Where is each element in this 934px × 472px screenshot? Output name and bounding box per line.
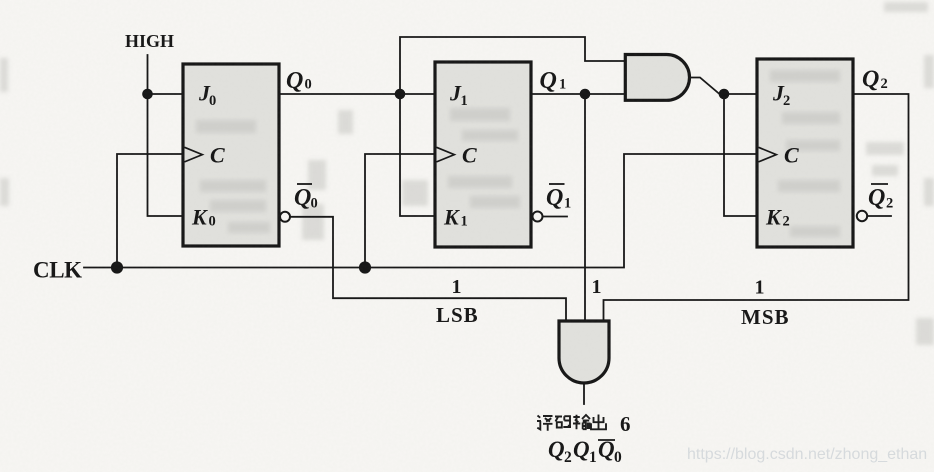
overbar of Q1-bar: [549, 183, 565, 185]
node CLK-C1 junction: [359, 261, 371, 273]
flip-flop FF2 body: [757, 59, 853, 247]
label decoded-output (Chinese MA): [555, 416, 571, 427]
overbar of Q0-bar in expression: [598, 439, 615, 441]
node Q1-AND junction: [580, 89, 591, 100]
node Q0-J1 junction: [395, 89, 406, 100]
wire Q2-bar stub: [868, 215, 892, 217]
wire Q0 feedback up to AND gate top input: [400, 37, 625, 94]
clock triangle FF2: [759, 147, 777, 162]
label decoded-output (Chinese CHU): [591, 415, 606, 430]
label decoded-output (Chinese YI): [537, 416, 553, 431]
wire Q0-bar to decoder left input: [291, 217, 567, 321]
wire C1 clock branch to CLK bus: [365, 154, 435, 268]
wire Q0 branch down to K1: [400, 94, 435, 216]
wire Q1 output to AND gate lower input: [531, 93, 625, 95]
clock triangle FF0: [185, 147, 203, 162]
AND gate U1: [625, 55, 689, 101]
wire decoder output stub: [583, 383, 585, 404]
label decoded-output (Chinese SHU): [573, 415, 590, 430]
output bubble Q1-bar: [533, 212, 543, 222]
wire Q1-bar stub: [543, 216, 567, 218]
wire C0 clock branch to CLK bus: [117, 154, 184, 268]
ghost bleed-through marks (page scan): [0, 2, 934, 345]
node HIGH-J0 junction: [142, 89, 153, 100]
wire CLK bus to FF2 C input: [84, 154, 757, 268]
node CLK-C0 junction: [111, 261, 123, 273]
ghost marks inside flip-flop bodies: [196, 70, 840, 237]
wire Q2 output down and left to decoder right input: [604, 94, 909, 321]
overbar of Q2-bar: [871, 183, 888, 185]
wire U1 AND output to J2: [690, 78, 758, 95]
wire Q1 branch down to decoder middle input: [584, 94, 586, 321]
overbar of Q0-bar: [297, 183, 312, 185]
AND gate U2 decoder: [559, 321, 609, 383]
output bubble Q0-bar: [280, 212, 290, 222]
flip-flop FF0 body: [183, 64, 279, 246]
wire Q0 output to J1: [279, 93, 435, 95]
wire J0 input from HIGH node: [148, 93, 184, 95]
wire HIGH line down to K0: [148, 55, 184, 216]
node AND-J2 junction: [719, 89, 730, 100]
clock triangle FF1: [437, 147, 455, 162]
output bubble Q2-bar: [857, 211, 867, 221]
wire J2 branch down to K2: [724, 94, 757, 216]
flip-flop FF1 body: [435, 62, 531, 247]
